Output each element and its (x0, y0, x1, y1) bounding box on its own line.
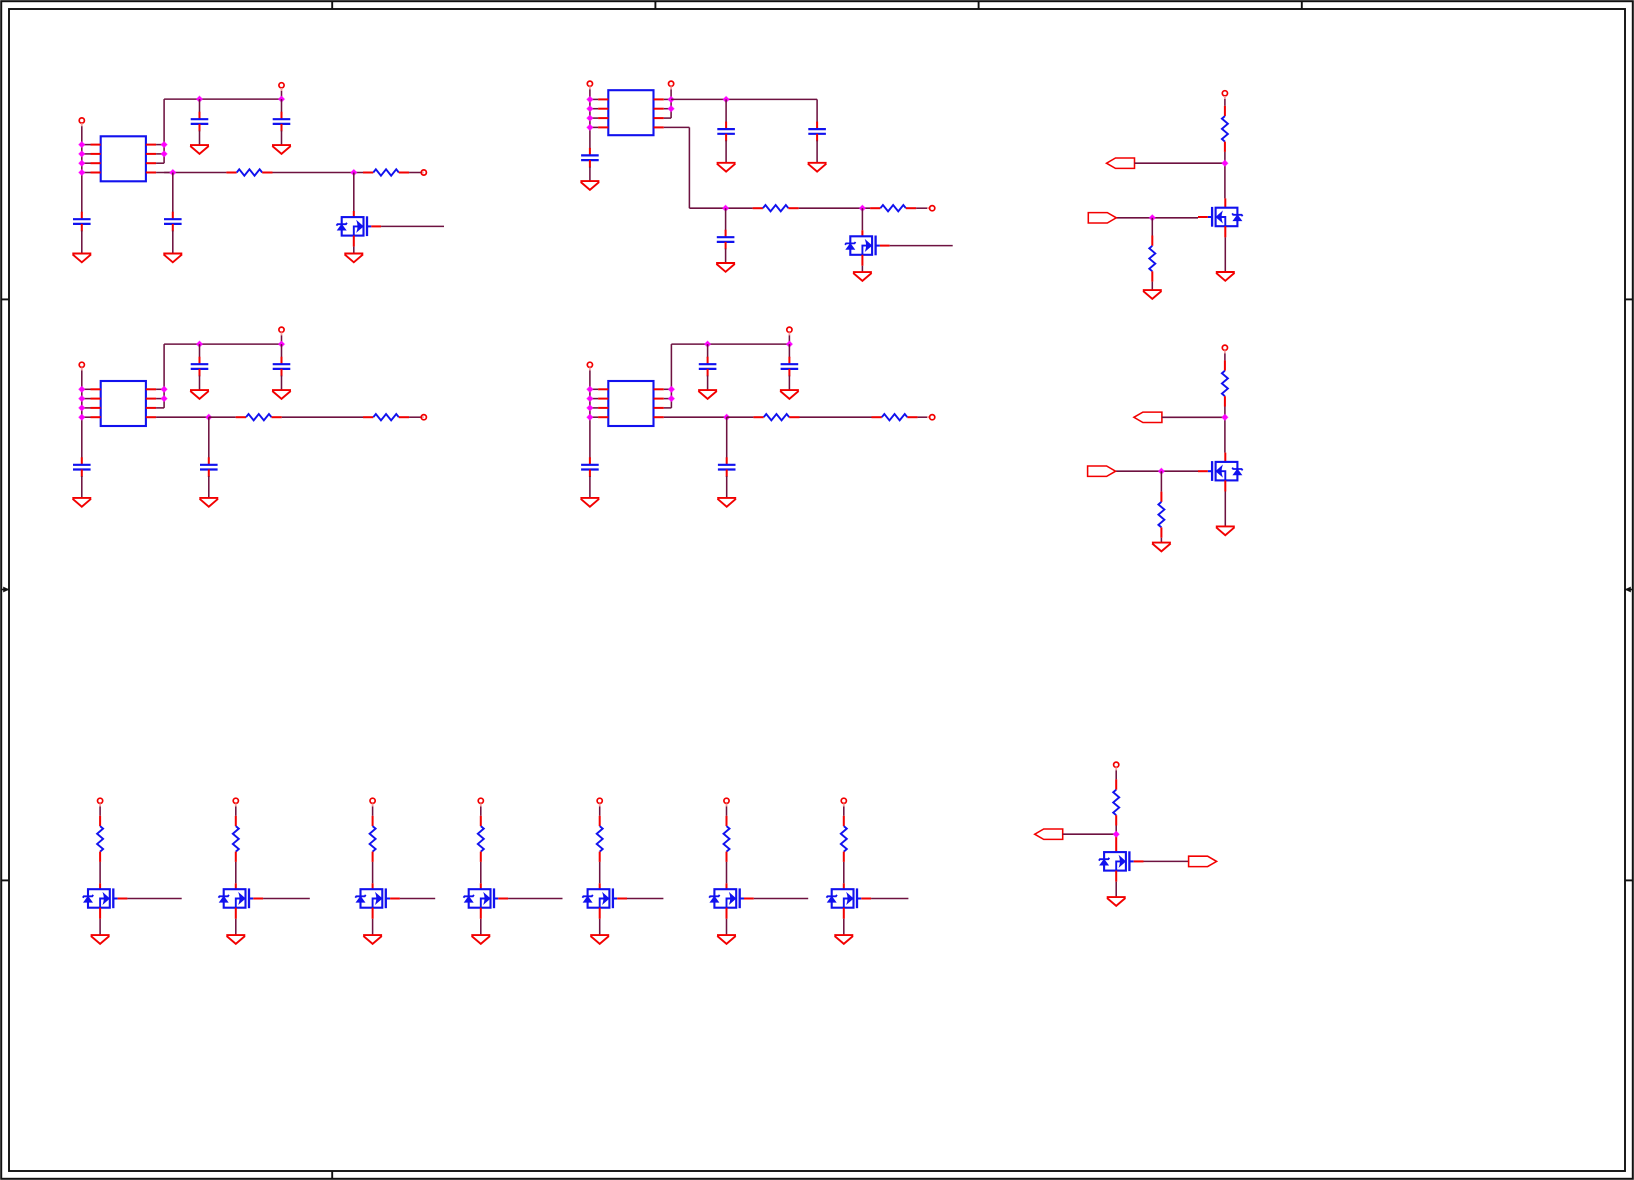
port P7 (block C pull-up supply) (1222, 91, 1227, 96)
wire node to Q2 drain (861, 208, 863, 230)
node dot U3 pin2 (78, 395, 86, 403)
port P16 (cell 2 supply) (233, 798, 238, 803)
U4 pin 1 stub (598, 388, 608, 390)
wire R16 to Q8 drain (480, 862, 482, 883)
ground below C11 (72, 498, 91, 507)
capacitor C7 (581, 148, 599, 168)
wire R2 to port P3 (409, 172, 421, 174)
resistor R2 (363, 169, 409, 175)
port P3 (block A output) (421, 172, 424, 174)
capacitor C2 (273, 112, 291, 132)
off-page connector J4 (1088, 466, 1116, 476)
U1 right pin 6 stub (146, 153, 156, 155)
wire Q9 gate (627, 898, 663, 900)
wire node to C16 (726, 417, 728, 458)
resistor R16 (cell 4) (478, 816, 484, 862)
port P6 (block B output) (927, 207, 930, 209)
wire Q3 source (1224, 226, 1226, 237)
port P2 (block A top) (279, 83, 284, 88)
wire U2 pin8 jog down (688, 127, 690, 208)
wire Q2 gate (890, 245, 953, 247)
wire C7 to ground (589, 167, 591, 181)
node dot U3 pin3 (78, 404, 86, 412)
U2 pin 3 stub (598, 117, 608, 119)
wire P15 to R13 (99, 807, 101, 816)
off-page connector J5 (1035, 829, 1063, 839)
node dot B pin7 (667, 96, 675, 104)
port P5 (block B top) (669, 81, 674, 86)
node dot P13 corner (786, 340, 794, 348)
ground below R6 (1143, 290, 1162, 299)
node dot U4 pin3 (586, 404, 594, 412)
U1 right pin 5 stub (146, 162, 156, 164)
wire top rail block E (671, 343, 789, 345)
wire R18 to Q10 drain (726, 862, 728, 883)
node dot right pin7 (160, 141, 168, 149)
port P11 (block D output) (421, 416, 424, 418)
wire C5 to ground (725, 140, 727, 162)
U3 right pin 8 stub (146, 416, 156, 418)
node dot U3 pin4 (78, 413, 86, 421)
U4 right pin 7 stub (654, 388, 664, 390)
transistor Q11 (cell 7) (827, 888, 872, 908)
wire Q7 gate (400, 898, 435, 900)
wire R9 to R10 (282, 416, 363, 418)
resistor R17 (cell 5) (597, 816, 603, 862)
node dot B gate node (859, 204, 867, 212)
port P9 (block D supply input) (79, 362, 84, 367)
capacitor C9 (191, 357, 209, 377)
capacitor C4 (164, 212, 182, 232)
node dot E pin7 (668, 386, 676, 394)
resistor R9 (236, 414, 282, 420)
wire U3 right vertical (163, 344, 165, 408)
wire top rail block D (164, 343, 281, 345)
wire Q12 gate (1144, 860, 1189, 862)
ground below Q9 (590, 935, 609, 944)
ground below Q8 (471, 935, 490, 944)
node dot U2 pin2 (586, 105, 594, 113)
port P8 (block F pull-up supply) (1222, 345, 1227, 350)
resistor R12 (872, 414, 918, 420)
wire C13 to ground (707, 376, 709, 391)
node dot U1 pin3 (78, 159, 86, 167)
node dot E output (723, 413, 731, 421)
node A-VDD junction (196, 95, 204, 103)
port P4 (block B input) (587, 81, 592, 86)
off-page connector J3 (1134, 412, 1162, 422)
U4 pin 2 stub (598, 398, 608, 400)
transistor Q2 (845, 236, 890, 256)
U2 pin 2 stub (598, 108, 608, 110)
resistor R11 (753, 414, 799, 420)
wire P1 to U1 left pins / C3 (81, 126, 83, 213)
ground below Q11 (834, 935, 853, 944)
wire top rail block A (164, 98, 281, 100)
U3 pin 2 stub (91, 398, 101, 400)
ground below C2 (272, 145, 291, 154)
wire P8 to R7 (1224, 353, 1226, 360)
wire C14 to ground (788, 376, 790, 391)
U2 right pin 8 stub (654, 126, 664, 128)
node dot U2 pin3 (586, 114, 594, 122)
transistor Q7 (cell 3) (355, 888, 400, 908)
capacitor C13 (699, 357, 717, 377)
wire R15 to Q7 drain (372, 862, 374, 883)
node H junction (1112, 830, 1120, 838)
wire Q8 source (480, 908, 482, 919)
wire Q5 source (99, 908, 101, 919)
U1 pin 1 stub (91, 144, 101, 146)
resistor R4 (870, 205, 916, 211)
wire Q7 source (372, 908, 374, 919)
wire C16 to ground (726, 476, 728, 498)
resistor R20 (pull-up) (1113, 779, 1119, 825)
node C gate junction (1149, 214, 1157, 222)
resistor R19 (cell 7) (841, 816, 847, 862)
resistor R10 (363, 414, 409, 420)
node dot B pin6 (667, 105, 675, 113)
node dot P2 corner (278, 95, 286, 103)
wire Q4 source (1224, 480, 1226, 491)
IC U2 (608, 90, 653, 135)
capacitor C14 (781, 357, 799, 377)
U3 pin 1 stub (91, 388, 101, 390)
ground below C6 (808, 163, 827, 172)
wire Q1 source (353, 236, 355, 247)
wire C2 to ground (281, 131, 283, 146)
node dot P10 corner (278, 340, 286, 348)
wire node to Q12 drain (1115, 834, 1117, 852)
U2 pin 4 stub (598, 126, 608, 128)
resistor R13 (cell 1) (97, 816, 103, 862)
wire P20 to R18 (726, 807, 728, 816)
node dot right pin6 (160, 150, 168, 158)
U1 pin 3 stub (91, 162, 101, 164)
U4 right pin 5 stub (654, 407, 664, 409)
wire P22 to R20 (1115, 770, 1117, 779)
U4 right pin 6 stub (654, 398, 664, 400)
wire node to Q4 drain (1224, 417, 1226, 452)
transistor Q10 (cell 6) (709, 888, 754, 908)
wire R3 to R4 node (799, 207, 870, 209)
port P17 (cell 3 supply) (370, 798, 375, 803)
U2 pin 1 stub (598, 98, 608, 100)
wire R12 to port P14 (918, 416, 930, 418)
resistor R1 (226, 169, 272, 175)
wire J5 to node (1063, 833, 1117, 835)
wire C1 to ground (199, 131, 201, 146)
wire R10 to port P11 (409, 416, 421, 418)
capacitor C3 (73, 212, 91, 232)
node dot D output (205, 413, 213, 421)
wire Q3 gate net (1116, 217, 1198, 219)
ground below Q12 (1107, 897, 1126, 906)
resistor R18 (cell 6) (724, 816, 730, 862)
node dot U4 pin4 (586, 413, 594, 421)
wire C12 to ground (208, 476, 210, 498)
port P10 (block D top) (279, 327, 284, 332)
node dot U2 pin4 (586, 124, 594, 132)
wire J1 to node (1135, 162, 1225, 164)
wire output rail B (689, 207, 752, 209)
wire R6 to ground (1151, 282, 1153, 291)
resistor R15 (cell 3) (370, 816, 376, 862)
node F gate junction (1158, 467, 1166, 475)
wire R17 to Q9 drain (599, 862, 601, 883)
transistor Q8 (cell 4) (464, 888, 509, 908)
resistor R8 (gate pull-down) (1158, 492, 1164, 538)
port P14 (block E output) (927, 416, 930, 418)
capacitor C10 (273, 357, 291, 377)
node F junction (1221, 414, 1229, 422)
ground below R8 (1152, 543, 1171, 552)
transistor Q12 (1099, 851, 1144, 871)
U1 right pin 8 stub (146, 172, 156, 174)
port P12 (block E supply input) (587, 362, 592, 367)
wire R4 to port P6 (916, 207, 929, 209)
wire P4 to U2 pins / C7 (589, 89, 591, 149)
wire node to Q3 drain (1224, 163, 1226, 198)
off-page connector J2 (1088, 213, 1116, 223)
wire Q9 source (599, 908, 601, 919)
wire C6 to ground (816, 140, 818, 162)
node dot D pin7 (160, 386, 168, 394)
wire P9 to U3 pins / C11 (81, 371, 83, 459)
U3 right pin 7 stub (146, 388, 156, 390)
node dot U2 pin1 (586, 96, 594, 104)
node dot U1 pin1 (78, 141, 86, 149)
wire gate node to R8 (1160, 471, 1162, 491)
wire U1 right vertical (163, 99, 165, 163)
U1 pin 4 stub (91, 172, 101, 174)
node B-VDD junction (722, 96, 730, 104)
U2 right pin 7 stub (654, 98, 664, 100)
wire R11 to R12 (800, 416, 872, 418)
wire Q1 gate (381, 225, 444, 227)
U2 right pin 5 stub (654, 117, 664, 119)
node dot output A (169, 169, 177, 177)
wire Q4 gate net (1116, 470, 1198, 472)
resistor R5 (pull-up) (1222, 106, 1228, 152)
ground below C13 (698, 390, 717, 399)
wire P10 to C10 (281, 344, 283, 358)
port P18 (cell 4 supply) (478, 798, 483, 803)
wire node to C12 (208, 417, 210, 458)
wire node to C8 (725, 208, 727, 231)
U4 right pin 8 stub (654, 416, 664, 418)
wire R7 to node (1224, 407, 1226, 418)
wire rail to C13 (707, 344, 709, 358)
ground below C1 (190, 145, 209, 154)
U3 pin 4 stub (91, 416, 101, 418)
wire rail to C9 (199, 344, 201, 358)
wire D rail to R9 (209, 416, 236, 418)
wire P18 to R16 (480, 807, 482, 816)
capacitor C5 (717, 122, 735, 142)
capacitor C12 (200, 457, 218, 477)
ground below Q10 (717, 935, 736, 944)
node dot D pin6 (160, 395, 168, 403)
port P19 (cell 5 supply) (597, 798, 602, 803)
node dot U1 pin4 (78, 169, 86, 177)
wire C15 to ground (589, 476, 591, 498)
wire R19 to Q11 drain (843, 862, 845, 883)
wire E rail to R11 (727, 416, 754, 418)
capacitor C8 (717, 230, 735, 250)
wire top rail block B (671, 98, 817, 100)
ground below C9 (190, 390, 209, 399)
wire P19 to R17 (599, 807, 601, 816)
transistor Q9 (cell 5) (582, 888, 627, 908)
wire rail to C5 (725, 99, 727, 123)
transistor Q4 (1198, 461, 1243, 481)
U1 right pin 7 stub (146, 144, 156, 146)
wire C8 to ground (725, 249, 727, 264)
off-page connector J6 (1189, 856, 1217, 866)
IC U4 (608, 381, 653, 426)
wire P17 to R15 (372, 807, 374, 816)
wire P5 down to pin5 (670, 89, 672, 118)
wire P7 to R5 (1224, 99, 1226, 106)
wire R1 to R2 node (273, 172, 364, 174)
wire Q6 gate (263, 898, 310, 900)
capacitor C6 (808, 122, 826, 142)
wire rail to C1 (199, 99, 201, 113)
capacitor C11 (73, 457, 91, 477)
capacitor C15 (581, 457, 599, 477)
wire gate node to R6 (1151, 218, 1153, 236)
ground below C5 (717, 163, 736, 172)
wire P13 to C14 (788, 344, 790, 358)
ground below C7 (580, 181, 599, 190)
wire R14 to Q6 drain (235, 862, 237, 883)
wire P2 down (281, 91, 283, 99)
wire R13 to Q5 drain (99, 862, 101, 883)
ground below C4 (163, 254, 182, 263)
node dot U4 pin2 (586, 395, 594, 403)
transistor Q3 (1198, 207, 1243, 227)
wire C3 to ground (81, 231, 83, 254)
wire Q11 source (843, 908, 845, 919)
ground below Q7 (363, 935, 382, 944)
wire C9 to ground (199, 376, 201, 391)
wire U4 right vertical (670, 344, 672, 408)
wire P10 down (281, 335, 283, 344)
node D-VDD junction (196, 340, 204, 348)
port P21 (cell 7 supply) (841, 798, 846, 803)
port P1 (block A supply input) (79, 118, 84, 123)
resistor R3 (753, 205, 799, 211)
node dot U1 pin2 (78, 150, 86, 158)
wire Q10 gate (754, 898, 808, 900)
wire Q5 gate (127, 898, 181, 900)
ground below Q1 (344, 254, 363, 263)
node dot B output (722, 204, 730, 212)
ground below C8 (716, 263, 735, 272)
ground below Q5 (91, 935, 110, 944)
wire P12 to U4 pins / C15 (589, 371, 591, 459)
wire Q11 gate (871, 898, 908, 900)
ground below C12 (199, 498, 218, 507)
ground below Q4 (1216, 526, 1235, 535)
wire R5 to node (1224, 152, 1226, 163)
port P13 (block E top) (787, 327, 792, 332)
wire node to Q1 drain (353, 173, 355, 212)
wire Q10 source (726, 908, 728, 919)
resistor R6 (gate pull-down) (1149, 236, 1155, 282)
off-page connector J1 (1107, 158, 1135, 168)
U1 pin 2 stub (91, 153, 101, 155)
ground below C15 (580, 498, 599, 507)
transistor Q1 (337, 216, 382, 236)
transistor Q5 (cell 1) (83, 888, 128, 908)
ground below Q2 (853, 272, 872, 281)
wire output rail A (164, 172, 226, 174)
wire C10 to ground (281, 376, 283, 391)
wire R20 to node (1115, 826, 1117, 835)
wire R8 to ground (1160, 538, 1162, 543)
U3 right pin 6 stub (146, 398, 156, 400)
wire C11 to ground (81, 476, 83, 498)
ground below C14 (780, 390, 799, 399)
IC U1 (101, 136, 146, 181)
U4 pin 3 stub (598, 407, 608, 409)
wire P13 down (788, 335, 790, 344)
wire Q8 gate (508, 898, 562, 900)
wire P16 to R14 (235, 807, 237, 816)
capacitor C1 (191, 112, 209, 132)
ground below C10 (272, 390, 291, 399)
wire P2 to C2 (281, 99, 283, 113)
wire P21 to R19 (843, 807, 845, 816)
capacitor C16 (718, 457, 736, 477)
node C junction (1221, 159, 1229, 167)
ground below Q3 (1216, 272, 1235, 281)
resistor R7 (pull-up) (1222, 360, 1228, 406)
IC U3 (101, 381, 146, 426)
transistor Q6 (cell 2) (219, 888, 264, 908)
ground below C16 (717, 498, 736, 507)
U2 right pin 6 stub (654, 108, 664, 110)
wire node to C4 (172, 173, 174, 214)
node dot A gate node (350, 169, 358, 177)
ground below C3 (72, 254, 91, 263)
wire C4 to ground (172, 231, 174, 254)
port P15 (cell 1 supply) (98, 798, 103, 803)
node dot E pin6 (668, 395, 676, 403)
wire Q2 source (861, 255, 863, 266)
wire Q12 source (1115, 871, 1117, 882)
port P22 (block H pull-up supply) (1114, 762, 1119, 767)
resistor R14 (cell 2) (233, 816, 239, 862)
node dot U3 pin1 (78, 386, 86, 394)
wire J3 to node (1162, 416, 1225, 418)
wire rail corner to C6 (816, 99, 818, 123)
node E-VDD junction (704, 340, 712, 348)
ground below Q6 (226, 935, 245, 944)
node dot U4 pin1 (586, 386, 594, 394)
wire Q6 source (235, 908, 237, 919)
U3 right pin 5 stub (146, 407, 156, 409)
U3 pin 3 stub (91, 407, 101, 409)
U4 pin 4 stub (598, 416, 608, 418)
port P20 (cell 6 supply) (724, 798, 729, 803)
